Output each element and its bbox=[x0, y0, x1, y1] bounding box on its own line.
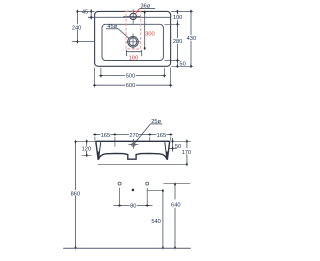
svg-text:270: 270 bbox=[129, 133, 139, 139]
svg-text:50: 50 bbox=[179, 61, 185, 67]
dim 500 line bbox=[101, 75, 164, 77]
dim 300 line bbox=[144, 12, 146, 49]
svg-text:430: 430 bbox=[187, 36, 197, 42]
36ø underline bbox=[140, 7, 156, 9]
basin outer rim (top view) bbox=[95, 11, 171, 66]
extension to 540 bbox=[147, 189, 163, 191]
svg-text:80: 80 bbox=[130, 204, 136, 210]
svg-text:50: 50 bbox=[175, 144, 181, 150]
45ø underline bbox=[106, 28, 118, 30]
svg-text:600: 600 bbox=[126, 83, 136, 89]
bottom extension lines (top view) bbox=[95, 68, 171, 88]
left leg tip fill bbox=[97, 152, 99, 161]
36ø red leader bbox=[135, 8, 139, 14]
dim 860 line bbox=[75, 141, 77, 248]
svg-text:540: 540 bbox=[151, 219, 161, 225]
back ledge line bbox=[88, 16, 170, 18]
svg-text:45ø: 45ø bbox=[107, 24, 117, 30]
right leg inner edge bbox=[165, 142, 167, 157]
floor line bbox=[63, 247, 191, 249]
svg-text:120: 120 bbox=[82, 146, 92, 152]
dim 120 line bbox=[86, 141, 88, 155]
basin underside curve with drain boss bbox=[98, 153, 167, 159]
dim 165/270/165 line bbox=[95, 134, 171, 136]
wall fixing hole left bbox=[118, 182, 121, 185]
dim 100 red: line bbox=[126, 50, 141, 56]
inner bowl (top view) bbox=[102, 24, 163, 60]
dim 45 line bbox=[90, 9, 92, 19]
svg-text:300: 300 bbox=[145, 32, 155, 38]
wall fixing hole right bbox=[146, 182, 149, 185]
extension lines right of top view bbox=[165, 11, 194, 66]
dim 50 (front) line bbox=[172, 138, 174, 152]
tap hole crosshair bbox=[123, 9, 141, 24]
dim 540 line bbox=[162, 190, 164, 248]
left extension lines (front view) bbox=[75, 141, 96, 155]
left leg outer edge bbox=[96, 141, 98, 160]
dim 170 line bbox=[186, 141, 188, 164]
svg-text:45: 45 bbox=[82, 9, 88, 15]
svg-text:165: 165 bbox=[101, 133, 111, 139]
svg-text:640: 640 bbox=[171, 203, 181, 209]
25ø leader bbox=[135, 124, 151, 143]
left extension lines (top view) bbox=[72, 11, 95, 41]
svg-text:860: 860 bbox=[71, 191, 81, 197]
fixing hole extension drops bbox=[120, 188, 148, 207]
25ø underline bbox=[151, 123, 163, 125]
overflow hole 25ø bbox=[132, 143, 135, 146]
45ø leader bbox=[118, 29, 129, 39]
dim chain 100/280/50 line bbox=[176, 11, 178, 66]
svg-text:165: 165 bbox=[157, 133, 167, 139]
dim 240 line bbox=[76, 11, 78, 41]
right leg tip fill bbox=[166, 152, 168, 161]
svg-text:170: 170 bbox=[182, 150, 192, 156]
right extension lines (front view) bbox=[98, 141, 191, 164]
drain crosshair bbox=[126, 34, 141, 50]
svg-text:280: 280 bbox=[173, 39, 183, 45]
drain hole outer circle 45ø bbox=[128, 37, 139, 48]
svg-text:100: 100 bbox=[173, 15, 183, 21]
left leg inner edge bbox=[99, 142, 101, 157]
extension drops from dim line bbox=[95, 137, 171, 147]
dim 640 line bbox=[174, 184, 176, 249]
svg-text:240: 240 bbox=[72, 25, 82, 31]
drain point dot bbox=[132, 189, 135, 192]
drain hole inner circle bbox=[129, 38, 137, 46]
dim 600 line bbox=[95, 84, 171, 86]
extension to 640 bbox=[164, 183, 191, 185]
rim top line (front view) bbox=[96, 140, 170, 142]
tap hole circle 36ø bbox=[130, 13, 136, 19]
svg-text:100: 100 bbox=[129, 56, 139, 62]
overflow crosshair bbox=[129, 139, 139, 149]
red dashed template rectangle bbox=[126, 11, 141, 49]
dim 80 line bbox=[114, 205, 153, 207]
svg-text:500: 500 bbox=[126, 74, 136, 80]
dim 430 line bbox=[190, 11, 192, 66]
right leg outer edge bbox=[167, 141, 169, 160]
